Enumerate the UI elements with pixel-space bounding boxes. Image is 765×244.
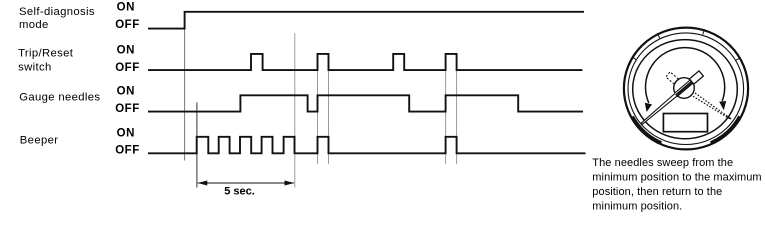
gauge dotted needle (maximum position) xyxy=(693,93,733,121)
svg-text:position, then return to the: position, then return to the xyxy=(592,186,722,198)
gauge bezel notch upper-left xyxy=(632,57,637,60)
wire gauge needles waveform xyxy=(148,95,583,111)
svg-text:Trip/Reset: Trip/Reset xyxy=(18,48,74,60)
gauge odometer window xyxy=(663,114,707,132)
svg-text:minimum position.: minimum position. xyxy=(592,201,682,213)
node pulse2 fall reference line xyxy=(328,54,330,164)
svg-text:OFF: OFF xyxy=(115,19,140,31)
svg-text:OFF: OFF xyxy=(115,145,140,157)
node pulse2 rise reference line xyxy=(317,54,319,164)
node pulse4 rise reference line xyxy=(445,54,447,164)
gauge bezel notch top-right xyxy=(703,29,705,34)
svg-text:Beeper: Beeper xyxy=(20,135,59,147)
gauge hub circle xyxy=(674,78,695,99)
label Gauge needles xyxy=(19,92,100,104)
wire self-diagnosis mode waveform xyxy=(148,12,584,29)
gauge bezel shading swath lower-left xyxy=(632,117,661,143)
svg-text:5 sec.: 5 sec. xyxy=(224,186,255,198)
gauge dial outer circle xyxy=(624,28,748,150)
gauge bezel notch top-left xyxy=(657,33,659,38)
node pulse4 fall reference line xyxy=(456,54,458,164)
gauge bezel notch upper-right xyxy=(736,58,741,61)
svg-text:OFF: OFF xyxy=(115,103,140,115)
gauge dial inner ring xyxy=(633,40,738,139)
svg-text:Self-diagnosis: Self-diagnosis xyxy=(19,6,95,18)
wire trip/reset switch waveform xyxy=(148,54,583,70)
gauge bezel shading swath lower-right xyxy=(711,117,740,143)
node t0 reference line xyxy=(184,12,186,161)
svg-text:Gauge needles: Gauge needles xyxy=(19,92,100,104)
svg-text:OFF: OFF xyxy=(115,62,140,74)
svg-text:switch: switch xyxy=(18,62,52,74)
svg-text:ON: ON xyxy=(117,86,135,98)
svg-text:minimum position to the maximu: minimum position to the maximum xyxy=(592,172,761,184)
label Self-diagnosis mode xyxy=(19,6,95,31)
svg-text:mode: mode xyxy=(19,19,49,31)
gauge ghost needle tail (dashed, minimum position) xyxy=(666,72,679,84)
label Beeper xyxy=(20,135,59,147)
dimension arrow 5 sec xyxy=(198,181,295,186)
wire beeper waveform xyxy=(148,137,586,154)
svg-text:ON: ON xyxy=(117,2,135,14)
gauge sweep arc left arrowhead xyxy=(645,103,652,112)
gauge needle (solid, minimum position) xyxy=(639,71,703,127)
node 5sec end reference line xyxy=(294,33,296,187)
node 5sec start extension line xyxy=(196,102,198,187)
gauge dial middle ring xyxy=(628,33,744,145)
gauge sweep arc xyxy=(645,48,724,103)
note text about needle sweep xyxy=(592,157,761,212)
label Trip/Reset switch xyxy=(18,48,74,74)
svg-text:The needles sweep from the: The needles sweep from the xyxy=(592,157,733,169)
svg-text:ON: ON xyxy=(117,45,135,57)
svg-text:ON: ON xyxy=(117,128,135,140)
gauge sweep arc right arrowhead xyxy=(719,101,726,110)
